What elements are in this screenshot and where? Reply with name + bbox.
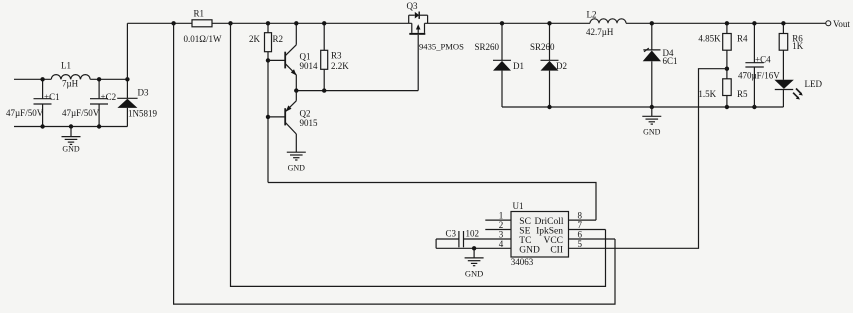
svg-text:C3: C3 bbox=[446, 228, 457, 238]
svg-text:Q1: Q1 bbox=[300, 52, 311, 62]
capacitor C2 bbox=[98, 79, 100, 98]
ground (output) bbox=[642, 107, 661, 136]
svg-text:0.01Ω/1W: 0.01Ω/1W bbox=[184, 34, 222, 44]
pin 3 bbox=[464, 238, 511, 240]
transistor Q1 9014 bbox=[268, 21, 318, 91]
svg-text:CII: CII bbox=[550, 246, 563, 256]
wire drive line to pin8 riser bbox=[268, 183, 596, 221]
terminal Vout bbox=[826, 21, 831, 26]
resistor R3 bbox=[323, 23, 325, 50]
zener D4 6C1 bbox=[643, 21, 678, 107]
wire main rail PMOS to L2 bbox=[425, 22, 591, 24]
ground (IC / C3) bbox=[465, 246, 484, 278]
svg-text:D1: D1 bbox=[513, 61, 524, 71]
svg-text:TC: TC bbox=[519, 236, 531, 246]
svg-text:SC: SC bbox=[519, 217, 531, 227]
resistor R5 bbox=[723, 79, 732, 96]
svg-text:7µH: 7µH bbox=[62, 79, 79, 89]
svg-text:GND: GND bbox=[519, 246, 540, 256]
node B (R1 right) bbox=[228, 21, 232, 25]
svg-text:U1: U1 bbox=[513, 201, 524, 211]
pin 6 bbox=[569, 238, 616, 240]
node R2/Q1 base bbox=[266, 58, 270, 62]
svg-text:GND: GND bbox=[62, 144, 80, 153]
wire main rail left segment bbox=[127, 22, 192, 24]
svg-text:2K: 2K bbox=[249, 34, 261, 44]
node R4/R5 divider bbox=[725, 67, 729, 71]
svg-text:Q3: Q3 bbox=[407, 1, 418, 11]
svg-text:7: 7 bbox=[578, 220, 583, 230]
pin 2 bbox=[485, 229, 511, 231]
svg-text:9435_PMOS: 9435_PMOS bbox=[419, 42, 464, 52]
svg-text:9014: 9014 bbox=[300, 61, 319, 71]
svg-text:42.7µH: 42.7µH bbox=[586, 27, 614, 37]
pin 4 bbox=[436, 247, 511, 249]
LED bbox=[774, 79, 822, 107]
transistor Q2 9015 bbox=[268, 91, 318, 153]
ground (Q2 collector) bbox=[287, 152, 306, 172]
svg-text:L2: L2 bbox=[587, 10, 597, 20]
wire gate drive line bbox=[296, 90, 418, 92]
svg-text:1K: 1K bbox=[792, 41, 804, 51]
node dot C2 bottom bbox=[97, 124, 101, 128]
svg-text:DriColl: DriColl bbox=[534, 217, 563, 227]
pin 7 bbox=[569, 229, 606, 231]
svg-text:6C1: 6C1 bbox=[663, 56, 678, 66]
svg-text:47µF/50V: 47µF/50V bbox=[62, 108, 100, 118]
svg-text:R3: R3 bbox=[331, 51, 342, 61]
svg-text:R1: R1 bbox=[194, 9, 205, 19]
svg-text:+C1: +C1 bbox=[44, 92, 60, 102]
svg-text:IpkSen: IpkSen bbox=[536, 227, 563, 237]
wire feedback to pin5 bbox=[569, 69, 727, 249]
wire VCC feed: down, across bottom, up to pin6 bbox=[174, 23, 615, 304]
wire input bottom stub bbox=[14, 126, 127, 128]
svg-text:1N5819: 1N5819 bbox=[128, 109, 157, 119]
node Q2 base bbox=[266, 115, 270, 119]
wire main rail L2 to Vout bbox=[626, 22, 826, 24]
svg-text:SR260: SR260 bbox=[530, 42, 555, 52]
wire filter node up to main rail bbox=[126, 23, 128, 79]
svg-text:R5: R5 bbox=[737, 89, 748, 99]
svg-text:2: 2 bbox=[499, 220, 504, 230]
wire base drive column bbox=[267, 52, 269, 183]
svg-text:GND: GND bbox=[465, 269, 483, 279]
svg-text:4.85K: 4.85K bbox=[698, 34, 721, 44]
svg-text:+C2: +C2 bbox=[101, 92, 117, 102]
wire input top stub to L1 bbox=[14, 78, 51, 80]
resistor R6 bbox=[782, 23, 784, 33]
svg-text:Vout: Vout bbox=[833, 19, 850, 29]
wire main rail R1 to PMOS bbox=[212, 22, 412, 24]
inductor L1 bbox=[51, 75, 90, 80]
node dot C1 bottom bbox=[40, 124, 44, 128]
svg-text:5: 5 bbox=[578, 239, 583, 249]
svg-text:9015: 9015 bbox=[300, 118, 319, 128]
svg-text:VCC: VCC bbox=[543, 236, 563, 246]
svg-text:2.2K: 2.2K bbox=[331, 61, 349, 71]
transistor Q3 9435_PMOS bbox=[407, 1, 465, 91]
svg-text:GND: GND bbox=[288, 163, 306, 172]
wire Ipk sense: down, across, up to pin7 bbox=[231, 23, 606, 286]
pin 8 bbox=[569, 219, 597, 221]
svg-text:LED: LED bbox=[805, 79, 823, 89]
svg-text:D2: D2 bbox=[556, 61, 567, 71]
pin 1 bbox=[485, 219, 511, 221]
capacitor C4 bbox=[753, 23, 755, 62]
svg-text:470µF/16V: 470µF/16V bbox=[738, 71, 780, 81]
svg-text:D3: D3 bbox=[138, 88, 149, 98]
resistor R1 bbox=[192, 20, 212, 27]
op-amp U1 34063 bbox=[511, 201, 569, 267]
wire bottom rail (diodes / output side) bbox=[502, 106, 783, 108]
diode D3 1N5819 bbox=[117, 77, 157, 126]
ground (input filter) bbox=[62, 124, 81, 153]
wire L1 to D3 node bbox=[90, 78, 127, 80]
node dot C1 top bbox=[40, 77, 44, 81]
svg-text:4: 4 bbox=[499, 239, 504, 249]
diode D1 SR260 bbox=[475, 21, 525, 107]
svg-text:SE: SE bbox=[519, 227, 530, 237]
node A (Vin sense) bbox=[171, 21, 175, 25]
svg-text:Q2: Q2 bbox=[300, 109, 311, 119]
svg-text:+C4: +C4 bbox=[755, 54, 771, 64]
svg-text:1.5K: 1.5K bbox=[698, 89, 716, 99]
inductor L2 bbox=[590, 19, 626, 24]
resistor R4 bbox=[726, 23, 728, 33]
svg-text:102: 102 bbox=[466, 228, 480, 238]
capacitor C3 bbox=[436, 228, 479, 248]
svg-text:R2: R2 bbox=[273, 34, 284, 44]
svg-text:R4: R4 bbox=[737, 34, 748, 44]
svg-text:34063: 34063 bbox=[511, 257, 534, 267]
svg-text:GND: GND bbox=[643, 127, 661, 136]
capacitor C1 bbox=[42, 79, 44, 98]
svg-text:SR260: SR260 bbox=[475, 42, 500, 52]
node dot C2 top bbox=[97, 77, 101, 81]
svg-text:L1: L1 bbox=[61, 61, 71, 71]
resistor R2 bbox=[267, 23, 269, 32]
diode D2 SR260 bbox=[530, 21, 567, 107]
svg-text:47µF/50V: 47µF/50V bbox=[6, 108, 44, 118]
